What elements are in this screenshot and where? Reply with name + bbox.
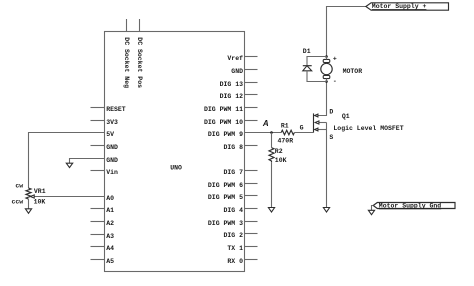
svg-text:A: A bbox=[262, 119, 269, 128]
pin A4 bbox=[91, 246, 105, 248]
wire R1 to gate bbox=[294, 132, 313, 134]
svg-text:DIG 4: DIG 4 bbox=[223, 207, 243, 214]
svg-text:DIG 12: DIG 12 bbox=[220, 93, 244, 100]
resistor R2 10K bbox=[269, 148, 274, 163]
svg-text:G: G bbox=[300, 125, 304, 132]
ground symbol source bbox=[323, 208, 329, 213]
ground symbol pot bbox=[25, 209, 31, 214]
junction motor - bbox=[325, 80, 328, 83]
wire DIG PWM 9 to node A bbox=[245, 132, 282, 134]
ground symbol R2 bbox=[268, 208, 274, 213]
ground symbol motor supply gnd bbox=[368, 210, 374, 214]
svg-text:Q1: Q1 bbox=[342, 113, 350, 120]
svg-text:R1: R1 bbox=[281, 123, 289, 130]
svg-text:DIG 2: DIG 2 bbox=[223, 232, 243, 239]
diode D1 bbox=[307, 57, 327, 66]
svg-text:A1: A1 bbox=[106, 207, 114, 214]
IC U1 Arduino UNO body bbox=[105, 32, 245, 272]
svg-text:Vref: Vref bbox=[227, 55, 243, 62]
svg-text:S: S bbox=[329, 134, 333, 141]
MOSFET body lead bbox=[319, 122, 327, 124]
MOSFET source lead bbox=[318, 129, 327, 131]
svg-text:GND: GND bbox=[106, 157, 118, 164]
pin TX 1 bbox=[245, 246, 258, 248]
wire pot to ground bbox=[28, 199, 30, 209]
pin DC Socket Neg bbox=[126, 19, 128, 32]
svg-text:GND: GND bbox=[106, 144, 118, 151]
wire 5V to potentiometer bbox=[29, 133, 105, 189]
svg-text:Motor Supply +: Motor Supply + bbox=[372, 3, 427, 10]
svg-text:470R: 470R bbox=[278, 138, 294, 145]
pin DIG 7 bbox=[245, 170, 258, 172]
pin 3V3 bbox=[91, 120, 105, 122]
pin DIG PWM 6 bbox=[245, 183, 258, 185]
svg-text:DIG 8: DIG 8 bbox=[223, 144, 243, 151]
pin DC Socket Pos bbox=[139, 19, 141, 32]
svg-text:UNO: UNO bbox=[170, 164, 182, 171]
svg-text:DC Socket Pos: DC Socket Pos bbox=[136, 37, 143, 88]
svg-text:Motor Supply Gnd: Motor Supply Gnd bbox=[379, 203, 442, 210]
diode D1 cathode bar bbox=[303, 65, 312, 67]
svg-text:DIG 13: DIG 13 bbox=[220, 81, 244, 88]
svg-text:DIG PWM 10: DIG PWM 10 bbox=[204, 119, 243, 126]
svg-text:Logic Level MOSFET: Logic Level MOSFET bbox=[333, 125, 403, 132]
svg-text:DC Socket Neg: DC Socket Neg bbox=[123, 37, 130, 88]
svg-text:DIG PWM 9: DIG PWM 9 bbox=[208, 131, 243, 138]
pin DIG PWM 5 bbox=[245, 195, 258, 197]
svg-text:cw: cw bbox=[15, 182, 23, 189]
pin DIG 2 bbox=[245, 233, 258, 235]
svg-text:A0: A0 bbox=[106, 195, 114, 202]
svg-text:10K: 10K bbox=[275, 157, 287, 164]
svg-text:DIG PWM 11: DIG PWM 11 bbox=[204, 106, 243, 113]
wire motor top bbox=[326, 57, 328, 60]
svg-text:D: D bbox=[329, 109, 333, 116]
pin A5 bbox=[91, 259, 105, 261]
MOSFET Q1 gate bar bbox=[313, 113, 315, 132]
motor M1 top brush cap bbox=[323, 59, 330, 62]
potentiometer VR1 10K bbox=[26, 188, 31, 199]
svg-text:GND: GND bbox=[231, 68, 243, 75]
motor M1 bottom brush cap bbox=[323, 75, 330, 78]
pin A1 bbox=[91, 208, 105, 210]
MOSFET drain lead bbox=[318, 82, 327, 116]
svg-text:10K: 10K bbox=[34, 199, 46, 206]
resistor R1 470R bbox=[281, 130, 294, 135]
wire drain to motor supply bbox=[327, 7, 366, 57]
wire A0 to wiper bbox=[34, 196, 105, 198]
svg-text:D1: D1 bbox=[303, 48, 311, 55]
ground symbol GND pin bbox=[66, 163, 72, 167]
svg-text:A3: A3 bbox=[106, 233, 114, 240]
wire source to ground bbox=[326, 123, 328, 208]
pin Vref bbox=[245, 56, 258, 58]
MOSFET source arrowhead bbox=[315, 128, 318, 131]
wire motor bottom bbox=[326, 79, 328, 82]
pin GND right bbox=[245, 69, 258, 71]
svg-text:A4: A4 bbox=[106, 245, 114, 252]
pin Vin bbox=[91, 170, 105, 172]
pin DIG 13 bbox=[245, 82, 258, 84]
junction node A bbox=[270, 131, 273, 134]
junction motor + bbox=[325, 55, 328, 58]
pin DIG 4 bbox=[245, 208, 258, 210]
svg-text:Vin: Vin bbox=[106, 169, 118, 176]
net flag Motor Supply Gnd bbox=[373, 203, 455, 209]
pin RX 0 bbox=[245, 259, 258, 261]
pin A3 bbox=[91, 234, 105, 236]
svg-text:-: - bbox=[333, 78, 337, 85]
pin DIG 12 bbox=[245, 94, 258, 96]
diode D1 anode wire bbox=[307, 71, 327, 82]
svg-text:3V3: 3V3 bbox=[106, 119, 118, 126]
pin DIG PWM 10 bbox=[245, 120, 258, 122]
svg-text:A5: A5 bbox=[106, 258, 114, 265]
svg-text:VR1: VR1 bbox=[34, 188, 46, 195]
pin A2 bbox=[91, 221, 105, 223]
svg-text:DIG 7: DIG 7 bbox=[223, 169, 243, 176]
motor M1 circle bbox=[321, 63, 332, 74]
svg-text:5V: 5V bbox=[106, 131, 114, 138]
svg-text:TX 1: TX 1 bbox=[227, 245, 243, 252]
svg-text:+: + bbox=[333, 56, 337, 63]
wire GND to ground bbox=[70, 159, 105, 164]
svg-text:DIG PWM 6: DIG PWM 6 bbox=[208, 182, 243, 189]
net flag Motor Supply + bbox=[366, 3, 449, 10]
svg-text:DIG PWM 3: DIG PWM 3 bbox=[208, 220, 243, 227]
diode D1 triangle bbox=[303, 66, 312, 71]
pin RESET bbox=[91, 107, 105, 109]
MOSFET body arrowhead bbox=[315, 121, 319, 124]
wiper arrow VR1 bbox=[30, 195, 34, 198]
MOSFET drain arrowhead bbox=[315, 114, 318, 117]
wire flag to ground bbox=[372, 206, 374, 211]
svg-text:A2: A2 bbox=[106, 220, 114, 227]
wire R2 to ground bbox=[271, 162, 273, 207]
svg-text:RX 0: RX 0 bbox=[227, 258, 243, 265]
pin DIG PWM 3 bbox=[245, 221, 258, 223]
svg-text:R2: R2 bbox=[275, 148, 283, 155]
pin DIG PWM 11 bbox=[245, 107, 258, 109]
pin DIG 8 bbox=[245, 145, 258, 147]
wire node A to R2 bbox=[271, 133, 273, 148]
pin GND bbox=[91, 145, 105, 147]
svg-text:MOTOR: MOTOR bbox=[343, 68, 363, 75]
svg-text:DIG PWM 5: DIG PWM 5 bbox=[208, 194, 243, 201]
svg-text:ccw: ccw bbox=[11, 198, 23, 205]
svg-text:RESET: RESET bbox=[106, 106, 126, 113]
